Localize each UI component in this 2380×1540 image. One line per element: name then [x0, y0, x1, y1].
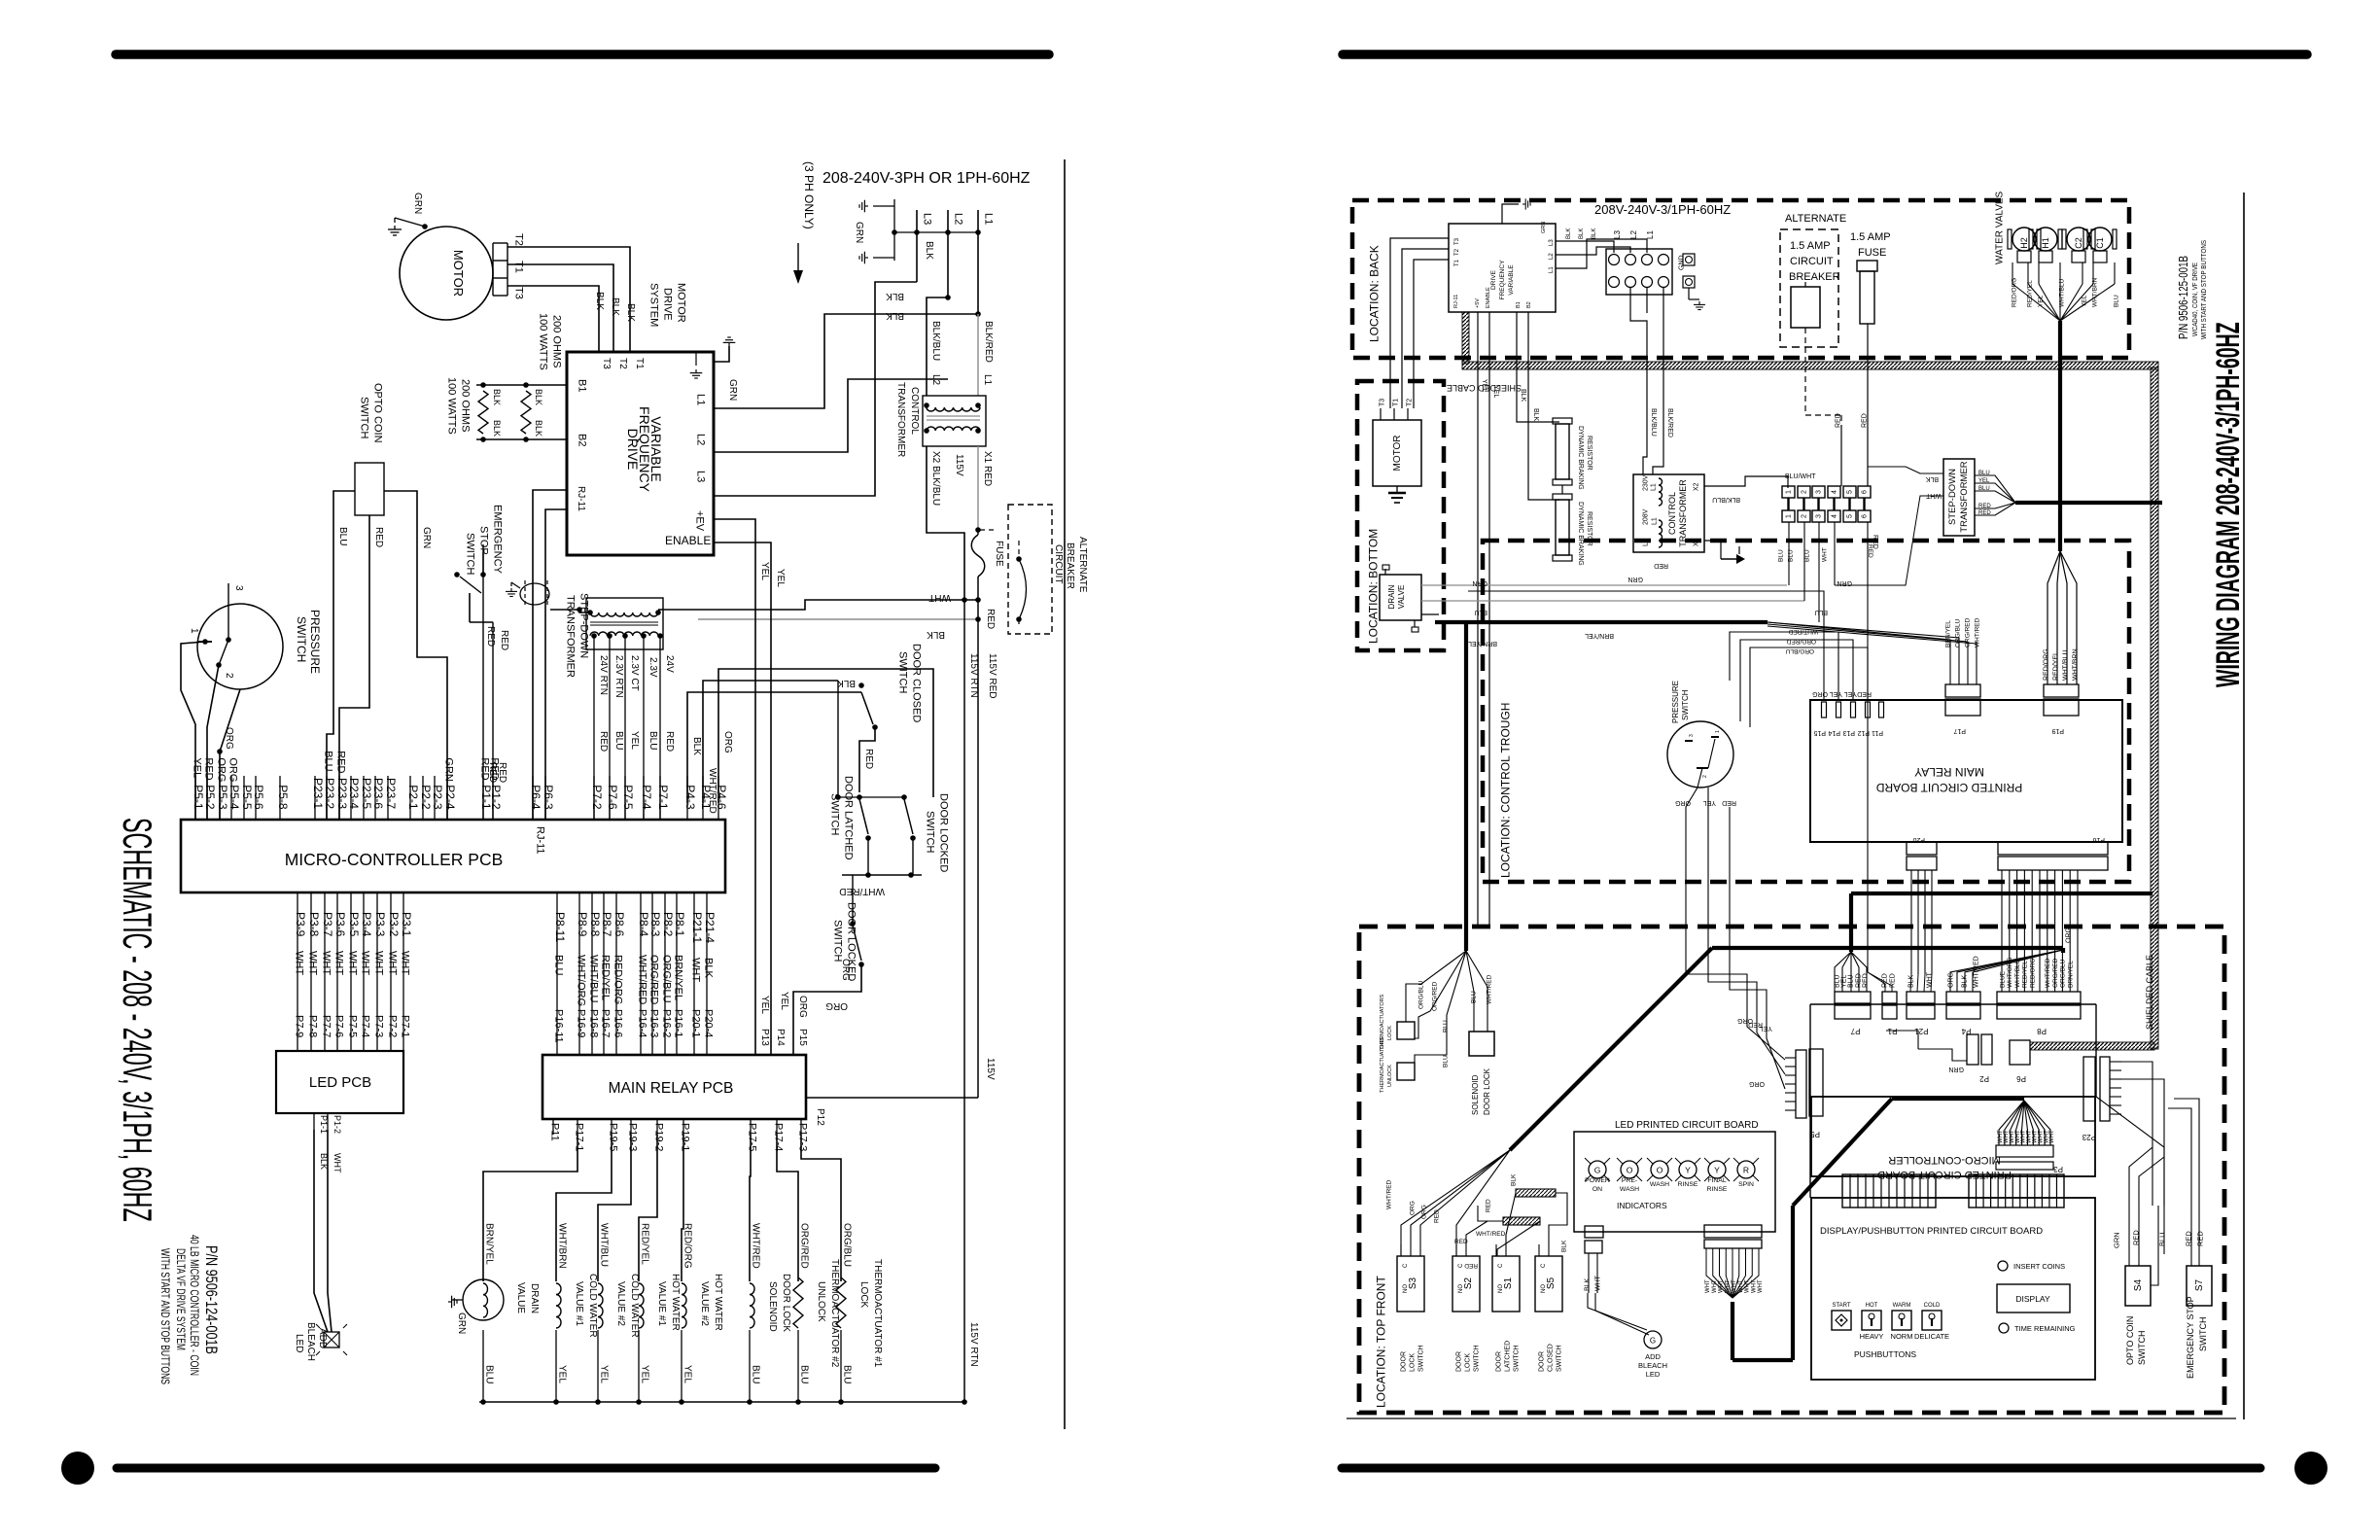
- svg-text:115V RTN: 115V RTN: [968, 1322, 979, 1367]
- svg-text:RINSE: RINSE: [1678, 1181, 1698, 1188]
- svg-text:BLU: BLU: [2158, 1232, 2167, 1246]
- svg-text:P11: P11: [549, 1123, 561, 1141]
- svg-text:SWITCH: SWITCH: [1514, 1345, 1521, 1372]
- svg-text:YEL: YEL: [1703, 799, 1716, 806]
- svg-text:ORG: ORG: [2066, 927, 2073, 943]
- svg-text:VALUE #2: VALUE #2: [615, 1281, 626, 1326]
- svg-text:DRAIN: DRAIN: [1387, 584, 1396, 609]
- svg-text:YEL: YEL: [557, 1365, 568, 1383]
- svg-text:THERMOACTUATOR #1: THERMOACTUATOR #1: [872, 1259, 883, 1368]
- svg-text:P8-1: P8-1: [673, 912, 686, 937]
- svg-text:GRN: GRN: [1948, 1066, 1964, 1072]
- svg-text:YEL: YEL: [682, 1365, 693, 1383]
- svg-text:3: 3: [1816, 514, 1823, 518]
- svg-text:P5-8: P5-8: [276, 785, 290, 810]
- svg-text:RESISTOR: RESISTOR: [1586, 436, 1592, 471]
- svg-text:RED/ORG: RED/ORG: [2044, 648, 2050, 681]
- svg-text:UNLOCK: UNLOCK: [816, 1281, 826, 1322]
- svg-text:WHT: WHT: [1725, 1279, 1731, 1293]
- svg-text:CONTROL: CONTROL: [909, 387, 920, 435]
- svg-text:PRINTED CIRCUIT BOARD: PRINTED CIRCUIT BOARD: [1875, 781, 2022, 794]
- svg-text:2.3V RTN: 2.3V RTN: [613, 655, 624, 698]
- svg-text:HOT WATER: HOT WATER: [713, 1274, 723, 1331]
- svg-text:BLK: BLK: [625, 303, 636, 322]
- svg-text:BLK: BLK: [691, 737, 702, 755]
- svg-text:ORG: ORG: [1948, 972, 1955, 988]
- svg-text:BLEACH: BLEACH: [1638, 1361, 1667, 1370]
- svg-text:DOOR CLOSED: DOOR CLOSED: [911, 644, 923, 722]
- svg-text:YEL: YEL: [779, 992, 789, 1010]
- svg-text:2.3V CT: 2.3V CT: [629, 655, 640, 691]
- svg-text:BLK: BLK: [1510, 1173, 1517, 1186]
- svg-text:BRN/YEL: BRN/YEL: [1944, 620, 1951, 647]
- svg-text:WASH: WASH: [1620, 1186, 1639, 1193]
- svg-text:WHT/BRN: WHT/BRN: [2091, 277, 2098, 307]
- svg-text:THERMOACTUATOR #2: THERMOACTUATOR #2: [829, 1259, 840, 1368]
- svg-text:BLU: BLU: [2113, 295, 2119, 307]
- svg-text:BLU: BLU: [1978, 471, 1990, 476]
- svg-text:P7-4: P7-4: [360, 1015, 371, 1037]
- svg-text:DOOR: DOOR: [1539, 1351, 1546, 1372]
- svg-text:RED: RED: [2196, 1231, 2205, 1246]
- svg-text:SWITCH: SWITCH: [1681, 689, 1690, 720]
- svg-text:UNLOCK: UNLOCK: [1387, 1065, 1393, 1087]
- svg-text:RED: RED: [664, 731, 675, 752]
- svg-text:P8: P8: [2037, 1027, 2047, 1035]
- svg-text:NO: NO: [1458, 1284, 1464, 1293]
- svg-text:ORG/BLU: ORG/BLU: [661, 955, 673, 1003]
- svg-text:RED: RED: [1978, 504, 1991, 509]
- svg-text:P16-1: P16-1: [673, 1009, 684, 1037]
- svg-text:YEL: YEL: [775, 569, 786, 587]
- svg-text:OPTO COIN: OPTO COIN: [2125, 1316, 2135, 1365]
- svg-text:WHT/RED: WHT/RED: [2045, 958, 2051, 988]
- svg-text:FREQUENCY: FREQUENCY: [1499, 260, 1506, 299]
- svg-text:C: C: [1458, 1263, 1464, 1268]
- svg-text:BLK: BLK: [837, 678, 856, 688]
- svg-text:DYNAMIC BRAKING: DYNAMIC BRAKING: [1577, 426, 1584, 490]
- svg-text:LOCK: LOCK: [1387, 1026, 1393, 1040]
- svg-text:S7: S7: [2194, 1278, 2205, 1291]
- svg-text:208V: 208V: [1643, 508, 1650, 525]
- svg-text:PUSHBUTTONS: PUSHBUTTONS: [1854, 1349, 1916, 1359]
- svg-text:YEL: YEL: [192, 757, 203, 778]
- svg-text:YEL: YEL: [2037, 295, 2044, 307]
- svg-text:WITH START AND STOP BUTTONS: WITH START AND STOP BUTTONS: [2201, 240, 2208, 339]
- svg-text:RJ-11: RJ-11: [1453, 295, 1459, 308]
- svg-text:ADD: ADD: [1645, 1352, 1661, 1361]
- svg-text:T1: T1: [1454, 259, 1460, 266]
- svg-text:PRE-: PRE-: [1622, 1177, 1637, 1184]
- svg-text:BLK: BLK: [1962, 974, 1969, 988]
- svg-text:VALUE #2: VALUE #2: [699, 1281, 710, 1326]
- svg-text:P13: P13: [759, 1029, 770, 1046]
- svg-text:YEL: YEL: [629, 731, 640, 750]
- svg-text:P19-5: P19-5: [608, 1123, 619, 1151]
- svg-text:BLK: BLK: [1532, 408, 1539, 422]
- svg-text:P23-4: P23-4: [347, 778, 361, 809]
- svg-text:DOOR LOCK: DOOR LOCK: [781, 1274, 791, 1332]
- svg-text:MAIN RELAY PCB: MAIN RELAY PCB: [609, 1080, 734, 1097]
- svg-text:RED: RED: [373, 527, 384, 547]
- svg-text:T3: T3: [1380, 399, 1386, 406]
- svg-text:208V-240V-3/1PH-60HZ: 208V-240V-3/1PH-60HZ: [1594, 202, 1731, 217]
- svg-text:L3: L3: [1549, 239, 1555, 246]
- svg-text:L1: L1: [983, 213, 995, 225]
- svg-text:P16-2: P16-2: [661, 1009, 673, 1037]
- svg-text:T2: T2: [1407, 399, 1414, 406]
- svg-text:RJ-11: RJ-11: [535, 826, 546, 855]
- svg-text:P23-2: P23-2: [323, 778, 336, 809]
- svg-text:P7-3: P7-3: [373, 1015, 385, 1037]
- svg-text:P8-3: P8-3: [648, 912, 662, 937]
- svg-text:P15: P15: [797, 1029, 808, 1046]
- svg-text:BLK: BLK: [1566, 228, 1572, 239]
- svg-text:BLU: BLU: [1848, 974, 1855, 988]
- svg-text:EMERGENCY STOP: EMERGENCY STOP: [2186, 1296, 2195, 1379]
- svg-text:RED: RED: [489, 757, 501, 780]
- svg-text:INSERT COINS: INSERT COINS: [2013, 1262, 2065, 1271]
- svg-text:ORG/RED: ORG/RED: [1786, 638, 1816, 645]
- svg-text:LOCATION: BACK: LOCATION: BACK: [1367, 245, 1381, 342]
- svg-text:BLU: BLU: [1470, 991, 1477, 1003]
- svg-text:P16-9: P16-9: [576, 1009, 587, 1037]
- svg-text:YEL: YEL: [599, 1365, 610, 1383]
- svg-text:ORG/BLU: ORG/BLU: [2060, 959, 2067, 988]
- svg-text:POWER: POWER: [1585, 1177, 1610, 1184]
- svg-text:WHT/RED: WHT/RED: [1476, 1231, 1506, 1238]
- svg-text:BLU: BLU: [1442, 1055, 1449, 1067]
- svg-text:BLU: BLU: [647, 731, 658, 750]
- svg-text:BLU: BLU: [1777, 549, 1784, 562]
- svg-text:YEL: YEL: [759, 996, 770, 1014]
- svg-text:HOT WATER: HOT WATER: [670, 1274, 681, 1331]
- svg-text:BLK: BLK: [927, 629, 945, 640]
- svg-text:RED: RED: [1862, 413, 1869, 428]
- svg-text:WHT/RED: WHT/RED: [751, 1223, 761, 1269]
- svg-text:BLK: BLK: [886, 291, 904, 301]
- svg-text:DELICATE: DELICATE: [1914, 1332, 1949, 1341]
- svg-text:WHT: WHT: [400, 951, 411, 975]
- svg-text:TRANSFORMER: TRANSFORMER: [895, 382, 906, 457]
- svg-text:ORG: ORG: [1749, 1080, 1765, 1087]
- svg-text:2: 2: [224, 673, 234, 679]
- svg-text:SHIELDED CABLE: SHIELDED CABLE: [2145, 955, 2154, 1030]
- svg-text:ORG: ORG: [227, 757, 239, 782]
- svg-text:RINSE: RINSE: [1707, 1186, 1728, 1193]
- svg-text:P16-7: P16-7: [600, 1009, 612, 1037]
- svg-text:P8-6: P8-6: [612, 912, 626, 937]
- svg-text:OPTO COIN: OPTO COIN: [372, 383, 384, 443]
- svg-text:COLD WATER: COLD WATER: [587, 1274, 598, 1338]
- svg-text:T3: T3: [513, 287, 525, 299]
- svg-text:Y: Y: [1714, 1166, 1720, 1175]
- svg-text:SOLENOID: SOLENOID: [1471, 1074, 1480, 1115]
- svg-text:RED: RED: [1978, 510, 1991, 516]
- svg-text:SWITCH: SWITCH: [1557, 1345, 1563, 1372]
- svg-text:L3: L3: [1613, 230, 1622, 239]
- svg-text:P7-6: P7-6: [333, 1015, 345, 1037]
- svg-text:ORG: ORG: [1675, 799, 1691, 806]
- svg-text:208-240V-3PH OR 1PH-60HZ: 208-240V-3PH OR 1PH-60HZ: [822, 170, 1031, 187]
- svg-text:P23-6: P23-6: [371, 778, 385, 809]
- svg-text:1: 1: [1715, 730, 1721, 733]
- svg-text:WHT: WHT: [928, 592, 951, 603]
- svg-text:ALTERNATE: ALTERNATE: [1077, 537, 1088, 593]
- svg-text:BLK: BLK: [886, 310, 904, 321]
- svg-text:B1: B1: [1516, 301, 1522, 308]
- svg-text:WHT: WHT: [1758, 1279, 1764, 1293]
- svg-text:P23-7: P23-7: [384, 778, 398, 809]
- svg-text:P20: P20: [1912, 836, 1925, 843]
- svg-text:SWITCH: SWITCH: [359, 397, 370, 438]
- svg-text:P12: P12: [1857, 729, 1870, 736]
- svg-text:L3: L3: [922, 213, 933, 225]
- svg-text:T2: T2: [1454, 248, 1460, 256]
- svg-text:BRN/YEL: BRN/YEL: [673, 955, 684, 1000]
- svg-text:B1: B1: [577, 379, 588, 392]
- svg-text:200 OHMS: 200 OHMS: [551, 315, 563, 367]
- svg-text:LED: LED: [294, 1334, 304, 1352]
- svg-text:WHT/BLU: WHT/BLU: [2063, 650, 2070, 682]
- svg-text:WHT/RED: WHT/RED: [637, 955, 648, 1004]
- svg-text:P7-9: P7-9: [294, 1015, 305, 1037]
- svg-text:BLU: BLU: [799, 1365, 810, 1383]
- svg-text:S2: S2: [1463, 1277, 1474, 1289]
- svg-text:1.5 AMP: 1.5 AMP: [1850, 231, 1891, 243]
- svg-text:ORG: ORG: [216, 757, 227, 782]
- svg-text:HOT: HOT: [1866, 1303, 1878, 1309]
- svg-text:BLU: BLU: [337, 527, 348, 545]
- svg-text:RED: RED: [203, 757, 215, 780]
- svg-text:6: 6: [1862, 514, 1869, 518]
- svg-text:X2: X2: [1694, 482, 1700, 491]
- svg-text:LOCK: LOCK: [1465, 1353, 1472, 1372]
- svg-text:DRIVE: DRIVE: [1490, 269, 1497, 290]
- svg-text:BLK: BLK: [1579, 228, 1585, 239]
- svg-text:S5: S5: [1546, 1277, 1557, 1289]
- svg-text:L1: L1: [1646, 230, 1655, 239]
- svg-text:P4-1: P4-1: [699, 785, 713, 810]
- svg-text:P3-3: P3-3: [373, 912, 387, 937]
- svg-text:P7-7: P7-7: [321, 1015, 332, 1037]
- svg-text:+5V: +5V: [1475, 298, 1481, 308]
- svg-text:P8-11: P8-11: [553, 912, 567, 942]
- svg-text:RED/YEL: RED/YEL: [2022, 961, 2029, 988]
- svg-text:WHT/BLU: WHT/BLU: [2014, 959, 2021, 988]
- svg-text:RED/ORG: RED/ORG: [2011, 278, 2017, 307]
- svg-text:WHT: WHT: [360, 951, 371, 975]
- svg-text:1.5 AMP: 1.5 AMP: [1790, 240, 1831, 252]
- svg-text:BLU: BLU: [1814, 609, 1828, 615]
- svg-text:BLK/BLU: BLK/BLU: [1650, 408, 1657, 437]
- svg-text:BLK: BLK: [492, 420, 502, 437]
- svg-text:5: 5: [1847, 514, 1854, 518]
- svg-text:BLK: BLK: [1908, 974, 1915, 988]
- svg-text:WITH START AND STOP BUTTONS: WITH START AND STOP BUTTONS: [158, 1248, 172, 1384]
- svg-text:P8-9: P8-9: [576, 912, 589, 937]
- svg-text:P/N 9506-124-001B: P/N 9506-124-001B: [202, 1245, 221, 1354]
- svg-text:RED: RED: [1433, 1209, 1440, 1223]
- svg-text:115V RTN: 115V RTN: [968, 653, 979, 698]
- svg-text:SCHEMATIC - 208 - 240V, 3/1PH,: SCHEMATIC - 208 - 240V, 3/1PH, 60HZ: [114, 818, 159, 1222]
- svg-text:P16-8: P16-8: [588, 1009, 600, 1037]
- svg-text:BREAKER: BREAKER: [1065, 542, 1075, 589]
- svg-text:WATER VALVES: WATER VALVES: [1995, 191, 2006, 264]
- svg-text:VARIABLE: VARIABLE: [1508, 264, 1515, 296]
- svg-text:P19-2: P19-2: [653, 1123, 665, 1151]
- svg-text:L1: L1: [982, 374, 993, 386]
- svg-text:L1: L1: [1652, 517, 1659, 525]
- svg-text:RED: RED: [485, 626, 496, 647]
- svg-text:BLU: BLU: [751, 1365, 761, 1383]
- svg-text:PRESSURE: PRESSURE: [1671, 681, 1680, 723]
- svg-text:VALUE: VALUE: [515, 1282, 526, 1313]
- svg-text:BREAKER: BREAKER: [1789, 271, 1840, 283]
- svg-text:P3-2: P3-2: [387, 912, 401, 937]
- svg-text:P3-4: P3-4: [360, 912, 373, 937]
- svg-text:BLK/RED: BLK/RED: [983, 321, 994, 363]
- svg-text:FUSE: FUSE: [994, 541, 1004, 567]
- svg-text:TRANSFORMER: TRANSFORMER: [1678, 479, 1688, 547]
- svg-text:DELTA VF DRIVE SYSTEM: DELTA VF DRIVE SYSTEM: [174, 1248, 188, 1350]
- svg-text:LOCATION: CONTROL TROUGH: LOCATION: CONTROL TROUGH: [1498, 703, 1512, 878]
- svg-text:WHT/BLU: WHT/BLU: [2058, 278, 2065, 307]
- svg-text:BLK: BLK: [492, 389, 502, 405]
- svg-text:P20-1: P20-1: [690, 1009, 702, 1037]
- svg-text:X1 RED: X1 RED: [982, 451, 993, 486]
- svg-text:ORG/RED: ORG/RED: [1431, 981, 1438, 1011]
- svg-text:EMERGENCY: EMERGENCY: [492, 505, 504, 575]
- svg-text:P1-2: P1-2: [332, 1115, 342, 1134]
- svg-text:GRN: GRN: [2113, 1232, 2121, 1248]
- svg-text:RED: RED: [1856, 973, 1863, 988]
- svg-text:ORG/BLU: ORG/BLU: [1785, 647, 1814, 654]
- svg-text:GRN: GRN: [854, 222, 864, 243]
- svg-text:DOOR: DOOR: [1401, 1351, 1408, 1372]
- svg-text:BRN/YEL: BRN/YEL: [1585, 632, 1614, 639]
- svg-text:5: 5: [1847, 490, 1854, 494]
- svg-text:WHT/RED: WHT/RED: [1788, 628, 1818, 635]
- svg-text:P16: P16: [2092, 836, 2105, 843]
- svg-text:+EV: +EV: [694, 510, 706, 532]
- svg-text:P21-4: P21-4: [703, 912, 717, 943]
- svg-text:VARIABLE: VARIABLE: [648, 416, 664, 481]
- svg-text:BLU: BLU: [323, 751, 334, 771]
- svg-text:MAIN RELAY: MAIN RELAY: [1914, 765, 1984, 779]
- svg-text:P5-4: P5-4: [227, 785, 241, 810]
- svg-text:100 WATTS: 100 WATTS: [446, 377, 458, 435]
- svg-text:P7-6: P7-6: [606, 785, 619, 810]
- svg-text:NO: NO: [1541, 1284, 1547, 1293]
- svg-text:DRAIN: DRAIN: [529, 1283, 540, 1313]
- svg-text:24V: 24V: [664, 655, 675, 673]
- svg-text:ORG: ORG: [797, 996, 808, 1018]
- svg-text:WHT: WHT: [294, 951, 305, 975]
- svg-text:P16-11: P16-11: [553, 1009, 565, 1043]
- svg-text:P14: P14: [1828, 729, 1840, 736]
- svg-text:WHT: WHT: [1712, 1279, 1718, 1293]
- svg-text:C: C: [1541, 1263, 1547, 1268]
- svg-text:INDICATORS: INDICATORS: [1617, 1201, 1667, 1210]
- svg-text:GRN: GRN: [412, 192, 423, 214]
- svg-text:DISPLAY/PUSHBUTTON PRINTED CIR: DISPLAY/PUSHBUTTON PRINTED CIRCUIT BOARD: [1820, 1226, 2043, 1237]
- svg-text:P5-1: P5-1: [192, 785, 205, 810]
- svg-text:WHT/BLU: WHT/BLU: [588, 955, 600, 1003]
- svg-text:YEL: YEL: [1844, 690, 1857, 697]
- svg-text:P7-2: P7-2: [387, 1015, 399, 1037]
- svg-text:BRN/YEL: BRN/YEL: [484, 1223, 495, 1265]
- svg-text:ORG: ORG: [722, 731, 733, 753]
- svg-text:BLU: BLU: [1787, 549, 1794, 562]
- svg-text:LATCHED: LATCHED: [1505, 1341, 1512, 1372]
- svg-text:WHT/RED: WHT/RED: [1974, 956, 1980, 988]
- svg-text:WARM: WARM: [1893, 1303, 1911, 1309]
- svg-text:P7-5: P7-5: [621, 785, 635, 810]
- svg-text:YEL: YEL: [1830, 690, 1842, 697]
- svg-text:RED: RED: [499, 630, 509, 650]
- svg-text:RED: RED: [1867, 544, 1873, 558]
- svg-text:MICRO-CONTROLLER PCB: MICRO-CONTROLLER PCB: [285, 850, 504, 869]
- svg-text:P13: P13: [1842, 729, 1855, 736]
- svg-text:VALUE #1: VALUE #1: [574, 1281, 584, 1326]
- svg-text:L2: L2: [1549, 253, 1555, 260]
- svg-text:3: 3: [233, 585, 244, 591]
- svg-text:P3-7: P3-7: [321, 912, 334, 937]
- svg-text:DRIVE: DRIVE: [662, 288, 674, 321]
- svg-text:P6-3: P6-3: [542, 785, 555, 810]
- svg-text:L2: L2: [695, 434, 707, 445]
- svg-text:GND: GND: [1679, 255, 1686, 270]
- svg-text:DYNAMIC BRAKING: DYNAMIC BRAKING: [1577, 502, 1584, 566]
- svg-text:T2: T2: [513, 233, 525, 246]
- svg-text:RED/YEL: RED/YEL: [2026, 280, 2033, 307]
- svg-text:2: 2: [1802, 514, 1808, 518]
- svg-text:T3: T3: [601, 358, 612, 369]
- svg-text:WHT: WHT: [387, 951, 399, 975]
- svg-text:ALTERNATE: ALTERNATE: [1785, 213, 1846, 225]
- svg-text:GRN: GRN: [1472, 579, 1487, 586]
- svg-text:L1: L1: [1549, 266, 1555, 273]
- svg-text:WHT/BLU: WHT/BLU: [599, 1223, 610, 1267]
- svg-text:ORG/RED: ORG/RED: [2052, 958, 2059, 988]
- svg-text:P19-3: P19-3: [627, 1123, 639, 1151]
- svg-text:P4-6: P4-6: [715, 785, 728, 810]
- svg-text:P5-5: P5-5: [240, 785, 254, 810]
- svg-text:RED: RED: [2185, 1231, 2193, 1246]
- svg-text:S3: S3: [1408, 1277, 1418, 1289]
- svg-text:P3-6: P3-6: [333, 912, 347, 937]
- svg-text:T1: T1: [634, 358, 645, 369]
- svg-text:BLK/BLU: BLK/BLU: [930, 321, 941, 361]
- svg-text:RED: RED: [1485, 1199, 1491, 1212]
- svg-text:T3: T3: [1454, 237, 1460, 245]
- svg-text:MOTOR: MOTOR: [1392, 435, 1403, 471]
- svg-text:ORG/BLU: ORG/BLU: [842, 1223, 853, 1267]
- svg-text:RED/YEL: RED/YEL: [2053, 651, 2060, 681]
- svg-text:NO: NO: [1498, 1284, 1504, 1293]
- svg-text:BRN/YEL: BRN/YEL: [2068, 961, 2075, 988]
- svg-text:G: G: [1650, 1337, 1656, 1346]
- svg-text:C2: C2: [2074, 237, 2083, 249]
- svg-text:ADD: ADD: [317, 1328, 328, 1348]
- svg-text:THERMOACTUATORS: THERMOACTUATORS: [1380, 1036, 1385, 1093]
- svg-text:(3 PH ONLY): (3 PH ONLY): [802, 161, 816, 229]
- svg-text:P8-7: P8-7: [600, 912, 613, 937]
- svg-text:BLK: BLK: [594, 292, 605, 310]
- svg-text:3: 3: [1816, 490, 1823, 494]
- svg-text:Y: Y: [1685, 1166, 1691, 1175]
